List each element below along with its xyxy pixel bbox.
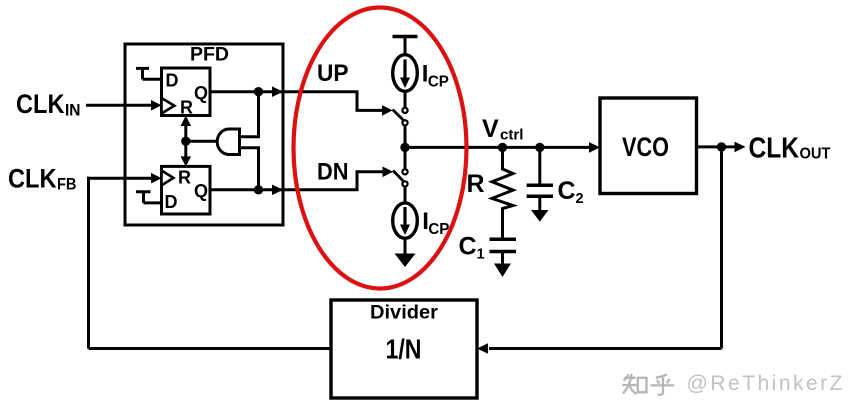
wire DN switch to current source: [404, 186, 407, 203]
capacitor C1: [490, 238, 517, 242]
svg-text:@ReThinkerZ: @ReThinkerZ: [687, 372, 843, 395]
switch S2 (DN): [402, 169, 407, 174]
reset node junction: [181, 137, 190, 146]
wire feedback down from CLK_OUT node: [720, 147, 723, 349]
svg-text:IN: IN: [65, 101, 81, 120]
wire AND output to reset node: [186, 140, 218, 143]
svg-text:CLK: CLK: [749, 133, 800, 165]
svg-text:CLK: CLK: [16, 89, 65, 119]
svg-text:Q: Q: [194, 181, 208, 201]
wire UP switch to center node: [404, 125, 407, 147]
svg-text:C: C: [558, 177, 576, 205]
node C2 branch: [535, 143, 544, 152]
arrowhead reset into U1 R: [181, 116, 192, 127]
svg-text:CLK: CLK: [8, 164, 57, 194]
wire CLK_IN to U1 clock: [86, 104, 152, 107]
flip-flop U1 clock triangle: [162, 98, 175, 113]
arrowhead into U1 clock: [151, 100, 162, 111]
svg-text:2: 2: [576, 191, 584, 207]
arrowhead to CLK_OUT: [735, 142, 746, 153]
wire AND lower input: [240, 148, 259, 190]
arrowhead UP at PFD edge: [272, 86, 283, 97]
logic-high tie symbol for U1 D input: [136, 68, 162, 79]
ground arrow (C2): [531, 210, 549, 222]
svg-text:Q: Q: [194, 83, 208, 103]
svg-text:OUT: OUT: [800, 145, 832, 162]
watermark 乎 glyph: [651, 374, 675, 395]
wire VCO output: [697, 145, 737, 148]
wire charge pump to VCO: [405, 146, 590, 149]
svg-text:D: D: [166, 71, 179, 91]
PFD block box: [125, 44, 283, 225]
wire CLK_FB to U2 clock: [87, 177, 152, 180]
svg-text:1: 1: [477, 247, 485, 263]
svg-text:CP: CP: [428, 74, 449, 91]
ground arrow (C1): [494, 264, 511, 278]
svg-text:PFD: PFD: [190, 45, 229, 66]
svg-text:R: R: [180, 98, 193, 118]
VCO block box: [600, 98, 697, 194]
flip-flop U2 box (bottom DFF): [162, 166, 211, 214]
node CLK_OUT junction: [717, 142, 726, 151]
arrowhead DN at switch: [383, 167, 394, 178]
node charge-pump output: [400, 143, 409, 152]
arrowhead into U2 clock: [151, 173, 162, 184]
wire Q1/UP from U1 to switch bend: [210, 92, 384, 111]
ground arrow (charge pump): [395, 254, 416, 268]
svg-text:D: D: [165, 192, 178, 212]
arrowhead into divider: [477, 343, 488, 354]
svg-text:R: R: [467, 170, 485, 198]
svg-text:ctrl: ctrl: [500, 128, 524, 144]
arrowhead DN at PFD edge: [272, 185, 283, 196]
svg-text:UP: UP: [317, 60, 349, 87]
wire supply to current source: [404, 37, 407, 56]
svg-text:DN: DN: [317, 159, 349, 186]
wire C2 to ground: [538, 196, 541, 210]
svg-text:C: C: [459, 233, 477, 261]
resistor R: [492, 147, 513, 237]
logic-high tie symbol for U2 D input: [136, 192, 162, 203]
arrowhead into VCO: [589, 142, 600, 153]
node V_ctrl (R branch): [498, 143, 507, 152]
supply rail bar: [393, 35, 418, 39]
switch S1 (UP): [402, 108, 407, 113]
current source I1 (top ICP): [393, 55, 418, 92]
wire feedback up to CLK_FB: [87, 177, 90, 349]
flip-flop U2 clock triangle: [162, 171, 174, 186]
red highlight ellipse around charge pump: [294, 8, 467, 289]
flip-flop U1 box (top DFF): [162, 68, 211, 116]
svg-text:1/N: 1/N: [386, 334, 422, 365]
wire Q2/DN from U2 to switch bend: [210, 172, 385, 190]
arrowhead UP at switch: [382, 105, 393, 116]
divider block box: [331, 300, 477, 398]
svg-text:FB: FB: [57, 175, 77, 194]
wire AND upper input: [240, 92, 259, 137]
wire feedback to divider input: [489, 347, 722, 350]
node Q1 junction: [254, 87, 263, 96]
svg-text:V: V: [482, 115, 499, 143]
wire reset vertical: [184, 118, 187, 164]
svg-text:Divider: Divider: [370, 303, 439, 324]
capacitor C2: [538, 147, 541, 185]
wire divider output to feedback corner: [89, 347, 332, 350]
svg-text:R: R: [178, 168, 191, 188]
wire current source to ground: [404, 238, 407, 254]
wire C1 to ground: [501, 252, 504, 265]
AND gate U3 (reset, pointing left): [217, 129, 239, 155]
svg-text:VCO: VCO: [622, 132, 669, 162]
arrowhead reset into U2 R: [181, 156, 192, 166]
watermark 知 glyph: [623, 374, 647, 394]
wire center node to DN switch: [404, 147, 407, 169]
current source I2 (bottom ICP): [393, 203, 418, 238]
wire current source to UP switch: [404, 91, 407, 108]
node Q2 junction: [254, 185, 263, 194]
